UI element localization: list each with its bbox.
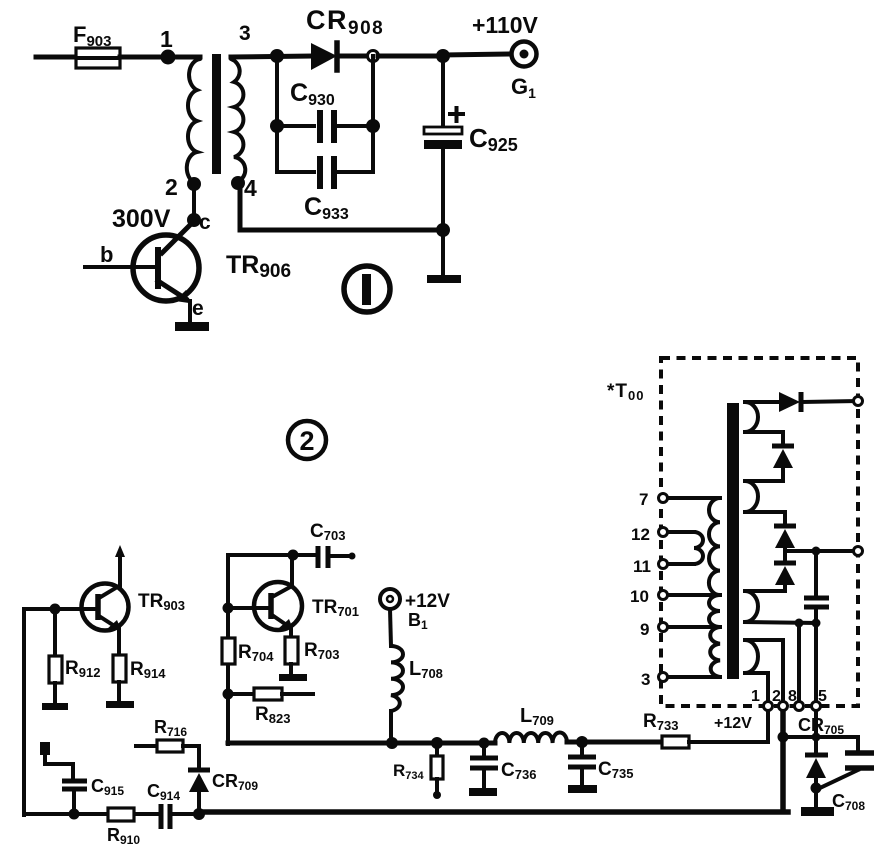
section marker 1 xyxy=(344,266,390,312)
inductor L708 xyxy=(391,646,443,711)
ground under C735 xyxy=(568,785,597,793)
transformer secondary winding xyxy=(231,59,245,182)
node 1 xyxy=(160,26,176,65)
wire R912 to ground xyxy=(53,683,57,703)
svg-text:e: e xyxy=(192,297,204,320)
wire C925 to lower node xyxy=(441,149,445,230)
pin 1 xyxy=(751,688,773,711)
resistor R704 xyxy=(222,638,274,664)
svg-text:7: 7 xyxy=(639,490,648,509)
wire L708 to bus xyxy=(389,711,393,743)
svg-text:5: 5 xyxy=(818,688,827,705)
wire tap1 xyxy=(745,400,779,404)
node junction CR705 bottom xyxy=(811,783,822,794)
wire R703 to ground xyxy=(289,664,293,674)
winding primary middle xyxy=(709,595,720,627)
winding secondary S1 xyxy=(745,402,758,432)
pin 12 xyxy=(631,525,668,544)
svg-text:2: 2 xyxy=(299,426,314,456)
ground under C925 xyxy=(427,275,461,283)
section marker 2 xyxy=(288,421,326,459)
transistor TR903 xyxy=(82,584,186,631)
wire C736 top lead xyxy=(482,743,486,756)
capacitor C915 xyxy=(62,776,124,798)
wire node to ground xyxy=(814,788,818,807)
node junction CR709 bottom xyxy=(193,808,205,820)
winding secondary S4 xyxy=(745,640,758,673)
wire CR705 to node xyxy=(814,778,818,788)
pin 3 xyxy=(641,670,668,689)
wire R734 bottom stub xyxy=(433,779,441,799)
wire pin8 vertical xyxy=(797,623,801,702)
node junction pin5 top xyxy=(812,619,821,628)
wire C930 left vertical xyxy=(275,56,279,172)
diode D1 xyxy=(779,392,801,412)
wire R716 to CR709 xyxy=(183,746,199,769)
transistor TR906 xyxy=(85,222,291,322)
node junction CR705 top xyxy=(812,733,821,742)
node junction L708 bus xyxy=(386,737,398,749)
capacitor C933 xyxy=(277,156,373,223)
wire D2 to tap3 xyxy=(745,468,783,481)
wire pin9 lead xyxy=(668,625,720,629)
wire TR903 emitter to R914 xyxy=(117,628,121,656)
wire C735 top lead xyxy=(580,742,584,755)
wire node to ground xyxy=(441,230,445,276)
svg-text:c: c xyxy=(199,211,211,234)
node C930 left xyxy=(270,119,284,133)
resistor R914 xyxy=(113,655,166,682)
capacitor C930 xyxy=(277,79,373,143)
resistor R733 xyxy=(643,711,689,748)
resistor R910 xyxy=(107,808,140,847)
inductor L709 xyxy=(495,705,567,743)
resistor R703 xyxy=(285,637,339,664)
wire R823 right stub xyxy=(282,692,313,696)
node junction CR705 branch xyxy=(778,732,789,743)
wire pin11 lead xyxy=(668,562,694,566)
node junction C703 left xyxy=(288,550,299,561)
wire C914 to node xyxy=(173,812,199,816)
transformer T900 primary winding xyxy=(187,59,200,183)
ground under C736 xyxy=(469,788,497,796)
diode CR709 xyxy=(188,770,258,793)
wire diode to node xyxy=(339,54,368,59)
node 4 xyxy=(231,175,257,201)
ground under R703 xyxy=(279,674,307,681)
resistor R912 xyxy=(49,656,100,683)
terminal stub C915 xyxy=(40,742,73,779)
wire C915 to bus node xyxy=(72,791,76,814)
capacitor C925 electrolytic xyxy=(424,108,518,155)
ground under R914 xyxy=(106,701,134,708)
wire pin3 lead xyxy=(668,675,720,679)
winding primary lower xyxy=(710,627,720,677)
wire B1 to L708 xyxy=(390,609,391,646)
wire R734 top lead xyxy=(435,743,439,756)
ground under R912 xyxy=(42,703,68,710)
arrow collector tip xyxy=(115,545,125,557)
wire pin7 lead xyxy=(668,496,720,500)
wire C930 right vertical xyxy=(371,56,375,172)
svg-text:9: 9 xyxy=(640,620,649,639)
wire tap6 xyxy=(745,622,816,623)
wire tap8 to pin1 xyxy=(745,673,768,702)
winding feedback pin12 pin11 xyxy=(694,532,703,564)
svg-text:+12V: +12V xyxy=(405,591,450,612)
resistor R823 xyxy=(254,688,290,726)
wire CR709 to node xyxy=(197,792,201,814)
node junction R823 xyxy=(223,689,234,700)
transformer core xyxy=(212,54,221,174)
wire CR705 top lead xyxy=(814,737,818,754)
diode CR908 xyxy=(306,5,384,70)
terminal G1 +110V xyxy=(472,12,539,101)
resistor R734 xyxy=(393,756,443,782)
svg-text:300V: 300V xyxy=(112,205,171,233)
svg-text:11: 11 xyxy=(633,557,651,576)
wire box bottom to bus xyxy=(228,741,392,746)
transformer T701 dashed enclosure xyxy=(607,358,858,706)
pin 11 xyxy=(633,557,668,576)
wire C736 to ground xyxy=(482,768,486,788)
core T701 xyxy=(727,403,739,679)
node junction pin8 top xyxy=(795,619,804,628)
wire pin12 lead xyxy=(668,530,694,534)
wire C708 to node slanted xyxy=(820,770,858,788)
svg-text:3: 3 xyxy=(239,22,251,45)
wire R823 lead xyxy=(228,692,254,696)
node junction C735 xyxy=(576,736,588,748)
wire node4 down and right xyxy=(240,185,443,230)
wire node to R912 xyxy=(53,609,57,657)
svg-text:1: 1 xyxy=(751,688,760,705)
wire cap vertical top xyxy=(814,551,818,596)
pin 10 xyxy=(630,587,668,606)
capacitor C708 xyxy=(832,753,874,813)
wire C708 top lead xyxy=(856,737,860,751)
wire pin5 to CR705 branch xyxy=(814,711,818,737)
wire bus segment xyxy=(392,741,495,746)
diode D4 xyxy=(774,563,796,585)
node junction R734 xyxy=(431,737,443,749)
svg-text:4: 4 xyxy=(244,175,257,201)
wire TR701 emitter xyxy=(289,627,293,638)
capacitor C914 xyxy=(147,781,180,829)
svg-text:1: 1 xyxy=(160,26,173,52)
node junction xyxy=(270,49,284,63)
pin 2 xyxy=(772,688,788,711)
wire D1 to right rail xyxy=(803,401,856,402)
ground under TR906 emitter xyxy=(175,322,209,331)
node 2 xyxy=(165,174,201,200)
wire bus segment L709 to R733 xyxy=(567,740,662,745)
node junction C736 xyxy=(479,738,490,749)
wire D3 to D4 xyxy=(783,548,787,562)
wire node3 to diode xyxy=(231,56,311,57)
svg-text:10: 10 xyxy=(630,587,649,606)
wire cap vertical bottom xyxy=(814,607,818,623)
node junction C925 top xyxy=(436,49,450,63)
diode D2 xyxy=(772,446,794,468)
wire fuse to node 1 xyxy=(120,55,200,60)
wire thick bus main xyxy=(199,809,788,815)
wire TR903 collector stub xyxy=(118,552,122,586)
wire tap4 xyxy=(745,512,785,525)
wire pin2 vertical thick xyxy=(780,711,786,812)
wire base TR701 xyxy=(228,606,271,610)
pin right lower xyxy=(854,547,863,556)
wire bottom left bus xyxy=(24,812,159,816)
wire node2 to node c xyxy=(192,184,196,219)
wire tap7 to pin2 xyxy=(745,640,783,702)
pin 8 xyxy=(788,688,804,711)
wire branch CR705 horizontal xyxy=(783,735,858,739)
wire pin5 vertical xyxy=(814,623,818,702)
wire TR701 collector xyxy=(290,555,294,586)
resistor R716 xyxy=(154,717,187,752)
wire D4 to tap5 xyxy=(745,585,785,591)
node after diode xyxy=(368,51,379,62)
node C930 right xyxy=(366,119,380,133)
wire C735 to ground xyxy=(580,767,584,785)
svg-text:8: 8 xyxy=(788,688,797,705)
svg-text:2: 2 xyxy=(165,174,178,200)
wire TR701 box left vertical xyxy=(226,555,230,744)
node junction TR701 base xyxy=(223,603,234,614)
capacitor C736 xyxy=(470,758,536,782)
wire R914 to ground xyxy=(117,682,121,701)
pin right upper xyxy=(854,397,863,406)
wire pin10 lead xyxy=(668,593,720,597)
svg-text:+12V: +12V xyxy=(714,715,752,732)
pin 5 xyxy=(812,688,828,711)
transistor TR701 xyxy=(254,582,359,630)
wire input lead xyxy=(36,55,76,60)
winding secondary S2 xyxy=(745,481,758,512)
node junction R912 top xyxy=(50,604,61,615)
svg-text:+110V: +110V xyxy=(472,12,539,38)
node junction cap top xyxy=(812,547,821,556)
wire tap2 xyxy=(745,432,783,445)
ground under CR705 xyxy=(801,807,834,816)
terminal B1 +12V xyxy=(380,589,450,632)
svg-text:2: 2 xyxy=(772,688,781,705)
svg-text:12: 12 xyxy=(631,525,650,544)
wire C925 vertical top xyxy=(441,56,445,128)
svg-text:b: b xyxy=(100,242,113,267)
wire R716 lead xyxy=(136,744,157,748)
node c xyxy=(187,211,211,234)
wire left vertical bus xyxy=(22,609,26,815)
diode CR705 xyxy=(798,715,844,778)
winding primary upper xyxy=(709,498,720,595)
wire to terminal G1 xyxy=(443,54,511,55)
svg-text:3: 3 xyxy=(641,670,650,689)
capacitor C735 xyxy=(568,757,633,781)
node junction C915 bottom xyxy=(69,809,80,820)
capacitor C703 xyxy=(310,521,356,568)
node junction lower xyxy=(436,223,450,237)
wire TR701 box top xyxy=(228,553,315,557)
pin 7 xyxy=(639,490,668,509)
capacitor internal xyxy=(804,598,829,607)
fuse F903 xyxy=(73,22,120,68)
pin 9 xyxy=(640,620,668,639)
wire R733 to pin1 xyxy=(689,711,768,742)
diode D3 xyxy=(774,526,796,548)
wire to C925 node xyxy=(378,54,443,59)
winding secondary S3 xyxy=(745,591,758,622)
wire base TR903 xyxy=(24,607,98,611)
wire branch mid to right rail xyxy=(785,549,856,553)
